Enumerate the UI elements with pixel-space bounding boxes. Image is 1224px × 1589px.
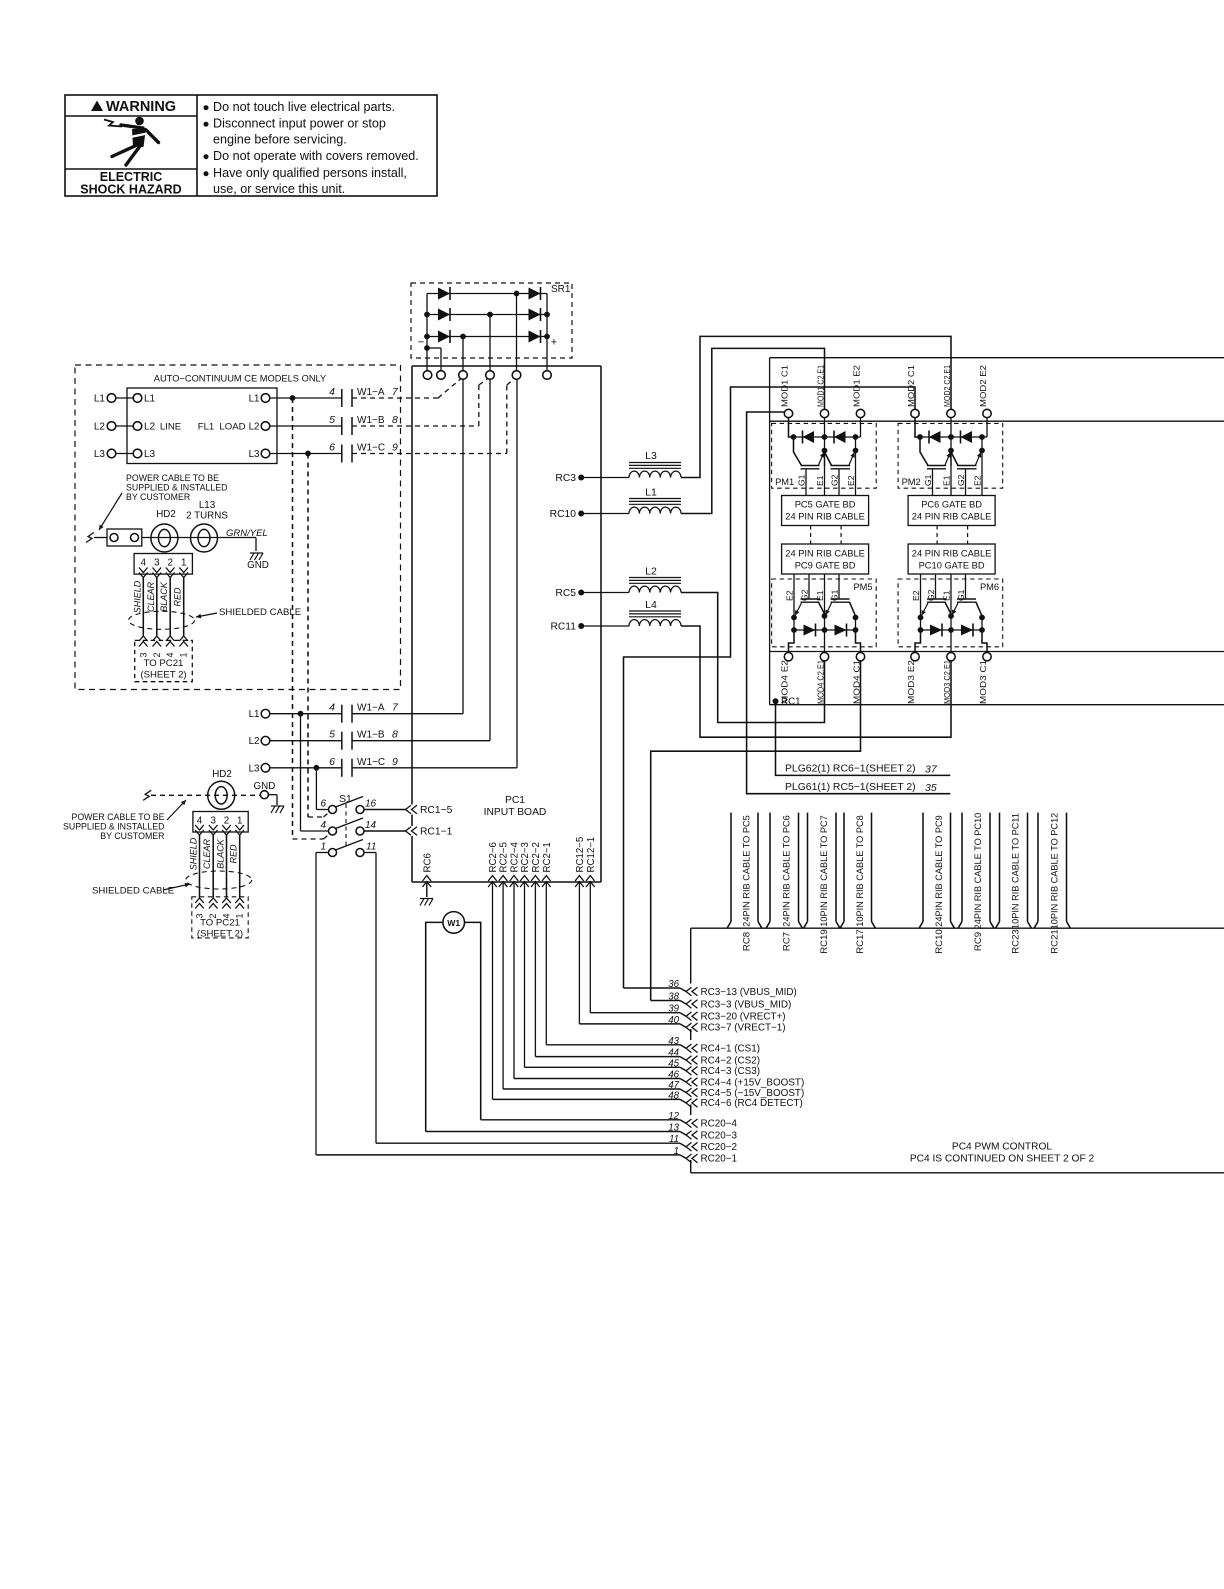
svg-text:RC2−1: RC2−1 [542,842,553,872]
svg-text:RC6: RC6 [422,853,433,872]
svg-text:1: 1 [320,842,326,853]
svg-text:RC11: RC11 [550,622,576,633]
svg-text:W1−B: W1−B [357,415,385,426]
svg-text:E2: E2 [785,590,795,601]
svg-text:SUPPLIED & INSTALLED: SUPPLIED & INSTALLED [126,483,228,493]
svg-text:9: 9 [392,756,398,768]
svg-text:SHOCK HAZARD: SHOCK HAZARD [80,183,181,197]
svg-text:RC4−6 (RC4 DETECT): RC4−6 (RC4 DETECT) [701,1098,803,1109]
svg-text:E2: E2 [911,590,921,601]
svg-text:PC4 IS CONTINUED ON SHEET: PC4 IS CONTINUED ON SHEET 2 OF 2 [910,1154,1095,1165]
svg-text:L3: L3 [249,763,260,774]
svg-text:PM6: PM6 [980,582,999,592]
svg-text:6: 6 [320,799,326,810]
svg-text:RC4−1 (CS1): RC4−1 (CS1) [701,1044,761,1055]
svg-text:engine before servicing.: engine before servicing. [213,133,347,147]
svg-text:L3: L3 [645,450,657,462]
svg-text:11: 11 [366,842,376,853]
svg-text:48: 48 [668,1090,679,1101]
svg-text:use, or service this unit.: use, or service this unit. [213,182,345,196]
svg-text:AUTO−CONTINUUM CE MODELS ON: AUTO−CONTINUUM CE MODELS ONLY [154,374,326,384]
svg-text:2: 2 [224,816,229,827]
svg-text:L2: L2 [144,422,156,433]
svg-text:PM2: PM2 [902,477,921,487]
svg-text:L2: L2 [94,422,106,433]
svg-text:1: 1 [674,1146,679,1157]
svg-text:RC4−5 (−15V_BOOST): RC4−5 (−15V_BOOST) [701,1088,805,1099]
svg-text:RC3−20 (VRECT+): RC3−20 (VRECT+) [701,1012,786,1023]
svg-text:MOD2 C2,E1: MOD2 C2,E1 [942,365,952,407]
svg-text:24 PIN RIB CABLE: 24 PIN RIB CABLE [912,512,992,522]
svg-text:4: 4 [165,652,175,657]
svg-text:47: 47 [668,1080,679,1091]
svg-text:43: 43 [668,1036,679,1047]
svg-text:4: 4 [320,820,326,831]
svg-text:RC2−5: RC2−5 [499,842,510,872]
svg-text:12: 12 [668,1111,679,1122]
svg-text:RC3: RC3 [555,473,576,484]
svg-text:24 PIN RIB CABLE: 24 PIN RIB CABLE [785,549,865,559]
svg-text:1: 1 [179,652,189,657]
svg-text:MOD1 C2,E1: MOD1 C2,E1 [816,365,826,407]
svg-text:MOD4 E2: MOD4 E2 [780,660,790,704]
svg-text:RC20−1: RC20−1 [701,1154,738,1165]
svg-text:L3: L3 [94,449,106,460]
svg-text:PC6 GATE BD: PC6 GATE BD [921,500,982,510]
svg-text:SUPPLIED & INSTALLED: SUPPLIED & INSTALLED [63,822,165,832]
svg-text:LINE: LINE [160,422,181,433]
svg-text:MOD4 C2,E1: MOD4 C2,E1 [816,660,826,704]
svg-text:MOD1 C1: MOD1 C1 [780,365,790,407]
svg-text:MOD4 C1: MOD4 C1 [852,660,862,704]
svg-text:PM5: PM5 [853,582,872,592]
svg-text:RC3−7 (VRECT−1): RC3−7 (VRECT−1) [701,1023,786,1034]
svg-text:6: 6 [329,756,335,768]
svg-text:L1: L1 [249,709,260,720]
svg-text:RC10: RC10 [934,929,945,954]
svg-text:L13: L13 [199,500,216,511]
svg-text:INPUT BOAD: INPUT BOAD [484,807,547,818]
svg-text:44: 44 [668,1048,679,1059]
svg-text:GRN/YEL: GRN/YEL [226,528,268,539]
svg-text:PC4 PWM CONTROL: PC4 PWM CONTROL [952,1142,1053,1153]
svg-text:RC5: RC5 [555,588,576,599]
svg-text:45: 45 [668,1058,679,1069]
svg-text:E1: E1 [815,475,825,486]
svg-text:(SHEET 2): (SHEET 2) [197,929,243,940]
svg-text:L4: L4 [645,599,657,611]
svg-text:G2: G2 [830,474,840,486]
svg-text:1: 1 [237,816,242,827]
svg-text:POWER CABLE TO BE: POWER CABLE TO BE [126,473,219,483]
svg-text:RC2−4: RC2−4 [510,841,521,872]
svg-text:MOD3 C1: MOD3 C1 [978,660,988,704]
svg-text:WARNING: WARNING [106,99,176,115]
svg-text:!: ! [96,101,99,111]
svg-text:RC1−5: RC1−5 [420,805,453,816]
svg-text:1: 1 [181,558,186,569]
svg-text:RC7: RC7 [781,932,792,951]
svg-text:TO PC21: TO PC21 [144,658,184,669]
svg-text:POWER CABLE TO BE: POWER CABLE TO BE [71,812,164,822]
svg-text:GND: GND [247,560,269,571]
svg-text:W1−B: W1−B [357,730,385,741]
svg-text:40: 40 [668,1015,679,1026]
svg-text:24PIN RIB CABLE TO PC10: 24PIN RIB CABLE TO PC10 [973,813,983,930]
svg-text:L1: L1 [249,394,260,405]
svg-text:3: 3 [138,652,148,657]
svg-text:24 PIN RIB CABLE: 24 PIN RIB CABLE [912,549,992,559]
svg-text:11: 11 [669,1134,679,1145]
svg-text:CLEAR: CLEAR [146,581,156,612]
svg-text:16: 16 [365,799,377,810]
svg-text:RC10: RC10 [550,509,577,520]
svg-text:RC12−5: RC12−5 [575,837,586,873]
svg-text:36: 36 [668,979,679,990]
svg-text:35: 35 [925,782,937,794]
svg-text:RC2−6: RC2−6 [488,842,499,872]
svg-text:(SHEET 2): (SHEET 2) [140,670,186,681]
svg-text:LOAD: LOAD [219,422,245,433]
svg-text:MOD2 E2: MOD2 E2 [978,365,988,407]
svg-text:RC2−3: RC2−3 [520,842,531,872]
svg-text:46: 46 [668,1070,679,1081]
svg-text:RC19: RC19 [819,929,830,954]
svg-text:4: 4 [329,702,335,714]
svg-text:E1: E1 [942,475,952,486]
svg-text:L1: L1 [645,487,657,499]
svg-text:PM1: PM1 [775,477,794,487]
svg-text:MOD1 E2: MOD1 E2 [852,365,862,407]
svg-text:W1−A: W1−A [357,387,385,398]
svg-text:RC2−2: RC2−2 [531,842,542,872]
svg-text:BY CUSTOMER: BY CUSTOMER [126,492,190,502]
svg-text:6: 6 [329,442,335,454]
svg-text:10PIN RIB CABLE TO PC8: 10PIN RIB CABLE TO PC8 [855,815,865,927]
svg-text:2: 2 [152,652,162,657]
svg-text:10PIN RIB CABLE TO PC11: 10PIN RIB CABLE TO PC11 [1011,813,1021,929]
svg-text:2: 2 [167,558,172,569]
svg-text:RC3−3 (VBUS_MID): RC3−3 (VBUS_MID) [701,999,792,1010]
svg-text:Disconnect input power or stop: Disconnect input power or stop [213,117,386,131]
svg-text:L3: L3 [249,449,260,460]
svg-text:L2: L2 [645,566,657,578]
svg-text:FL1: FL1 [198,422,215,433]
svg-text:L1: L1 [144,394,156,405]
svg-text:SR1: SR1 [551,284,571,295]
svg-text:E2: E2 [973,475,983,486]
svg-text:PC10 GATE BD: PC10 GATE BD [919,561,985,571]
svg-text:24 PIN RIB CABLE: 24 PIN RIB CABLE [785,512,865,522]
svg-text:RC20−2: RC20−2 [701,1142,738,1153]
svg-text:BLACK: BLACK [216,838,226,869]
svg-text:10PIN RIB CABLE TO PC7: 10PIN RIB CABLE TO PC7 [819,815,829,927]
svg-text:W1−C: W1−C [357,443,385,454]
svg-text:SHIELD: SHIELD [189,837,199,870]
svg-text:RC4−4 (+15V_BOOST): RC4−4 (+15V_BOOST) [701,1077,805,1088]
svg-text:Do not operate with covers rem: Do not operate with covers removed. [213,149,419,163]
svg-text:RC20−4: RC20−4 [701,1119,738,1130]
svg-text:L2: L2 [249,422,260,433]
svg-text:SHIELDED CABLE: SHIELDED CABLE [92,886,174,897]
svg-text:37: 37 [925,764,938,776]
svg-text:S1: S1 [339,793,352,805]
svg-text:Do not touch live electrical p: Do not touch live electrical parts. [213,100,395,114]
svg-text:PC9 GATE BD: PC9 GATE BD [795,561,856,571]
svg-text:24PIN RIB CABLE TO PC9: 24PIN RIB CABLE TO PC9 [934,815,944,927]
svg-text:5: 5 [329,414,335,426]
svg-text:TO PC21: TO PC21 [200,918,240,929]
svg-text:MOD3 C2,E1: MOD3 C2,E1 [942,660,952,704]
svg-text:RC20−3: RC20−3 [701,1130,738,1141]
svg-text:5: 5 [329,729,335,741]
svg-text:4: 4 [329,386,335,398]
svg-text:W1: W1 [447,918,460,928]
svg-text:PLG62(1) RC6−1(SHEET 2): PLG62(1) RC6−1(SHEET 2) [785,764,916,775]
svg-text:HD2: HD2 [156,509,176,520]
svg-text:24PIN RIB CABLE TO PC6: 24PIN RIB CABLE TO PC6 [781,815,791,927]
svg-text:8: 8 [392,414,398,426]
svg-text:BY CUSTOMER: BY CUSTOMER [100,831,164,841]
svg-text:RC1−1: RC1−1 [420,827,453,838]
svg-text:G2: G2 [956,474,966,486]
svg-text:G1: G1 [923,474,933,486]
svg-text:L2: L2 [249,736,260,747]
svg-text:39: 39 [668,1004,679,1015]
svg-text:CLEAR: CLEAR [202,838,212,869]
svg-text:G1: G1 [797,474,807,486]
svg-text:PC5 GATE BD: PC5 GATE BD [795,500,856,510]
svg-text:24PIN RIB CABLE TO PC5: 24PIN RIB CABLE TO PC5 [742,815,752,927]
svg-text:SHIELDED CABLE: SHIELDED CABLE [219,607,301,618]
svg-text:RC17: RC17 [855,929,866,954]
svg-text:RC4−2 (CS2): RC4−2 (CS2) [701,1055,761,1066]
svg-text:RED: RED [229,844,239,864]
svg-text:HD2: HD2 [212,769,232,780]
svg-text:E2: E2 [846,475,856,486]
svg-text:MOD3 E2: MOD3 E2 [906,660,916,704]
svg-text:RC23: RC23 [1011,929,1022,954]
svg-text:RC3−13 (VBUS_MID): RC3−13 (VBUS_MID) [701,987,797,998]
svg-text:PC1: PC1 [505,795,525,806]
svg-text:RC9: RC9 [973,932,984,951]
svg-text:MOD2 C1: MOD2 C1 [906,365,916,407]
svg-text:L1: L1 [94,394,106,405]
svg-text:4: 4 [141,558,147,569]
svg-text:RC12−1: RC12−1 [586,837,597,873]
svg-text:10PIN RIB CABLE TO PC12: 10PIN RIB CABLE TO PC12 [1049,813,1059,930]
svg-text:9: 9 [392,442,398,454]
svg-text:4: 4 [197,816,203,827]
svg-text:W1−C: W1−C [357,757,385,768]
svg-text:L3: L3 [144,449,156,460]
svg-text:2 TURNS: 2 TURNS [186,511,228,522]
svg-text:3: 3 [154,558,160,569]
svg-text:−: − [418,337,424,349]
svg-text:RC4−3 (CS3): RC4−3 (CS3) [701,1066,761,1077]
svg-text:3: 3 [210,816,216,827]
svg-text:RED: RED [173,587,183,607]
svg-text:RC21: RC21 [1049,929,1060,954]
svg-text:BLACK: BLACK [159,581,169,612]
svg-text:RC8: RC8 [742,932,753,951]
svg-text:+: + [551,337,557,349]
svg-text:8: 8 [392,729,398,741]
svg-text:PLG61(1) RC5−1(SHEET 2): PLG61(1) RC5−1(SHEET 2) [785,782,916,793]
svg-text:W1−A: W1−A [357,703,385,714]
svg-text:14: 14 [365,820,377,831]
svg-text:38: 38 [668,992,679,1003]
svg-text:Have only qualified persons in: Have only qualified persons install, [213,166,407,180]
svg-text:13: 13 [668,1123,679,1134]
svg-text:SHIELD: SHIELD [132,580,142,613]
